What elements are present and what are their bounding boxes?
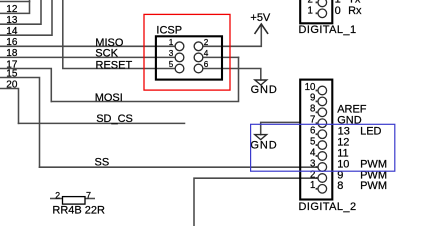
svg-text:7: 7 xyxy=(86,190,91,200)
wire net 20 down to SD_CS row xyxy=(0,89,19,124)
svg-text:12: 12 xyxy=(6,4,18,15)
svg-text:4: 4 xyxy=(310,147,316,158)
wire net 15 down to SS row xyxy=(0,78,40,168)
svg-text:13: 13 xyxy=(6,15,18,26)
red net frame around ICSP xyxy=(144,14,230,90)
DIGITAL_2 pin terminal dots xyxy=(316,90,318,190)
connector DIGITAL_2 box xyxy=(300,80,332,200)
wire DIGITAL_2 pin7 to GND2 xyxy=(261,122,300,134)
svg-text:6: 6 xyxy=(204,60,209,69)
svg-text:20: 20 xyxy=(6,79,18,90)
wire DIGITAL_2 pin2 from bottom edge xyxy=(194,178,317,226)
svg-text:1: 1 xyxy=(310,180,315,191)
wire ICSP pin2 stub to +5V xyxy=(203,24,262,46)
svg-text:8: 8 xyxy=(337,180,343,192)
svg-text:GND: GND xyxy=(251,84,278,96)
left pin number labels xyxy=(6,4,18,90)
svg-text:1: 1 xyxy=(169,38,174,47)
svg-text:18: 18 xyxy=(6,48,18,59)
svg-text:1: 1 xyxy=(308,5,313,16)
svg-text:Rx: Rx xyxy=(348,5,362,17)
wire net 16 MISO to ICSP pin1 xyxy=(0,45,175,47)
ICSP pin circles xyxy=(175,42,203,73)
net name labels xyxy=(95,37,133,168)
wire net 12 with vertical riser xyxy=(0,0,30,13)
ground GND1 triangle xyxy=(255,80,267,85)
svg-text:6: 6 xyxy=(310,126,315,137)
svg-text:9: 9 xyxy=(310,93,315,104)
svg-text:+5V: +5V xyxy=(250,12,271,24)
svg-text:SCK: SCK xyxy=(95,47,118,59)
svg-text:RESET: RESET xyxy=(96,60,133,72)
svg-text:2: 2 xyxy=(204,38,209,47)
svg-text:SD_CS: SD_CS xyxy=(96,113,133,125)
DIGITAL_1 pin numbers xyxy=(308,0,313,16)
svg-text:ICSP: ICSP xyxy=(156,25,182,37)
blue net frame xyxy=(251,124,395,171)
ICSP pin numbers right column xyxy=(204,38,209,69)
wire MOSI row up to ICSP pin4 xyxy=(51,57,238,101)
svg-text:5: 5 xyxy=(310,136,315,147)
DIGITAL_2 pin circles xyxy=(318,86,327,193)
connector DIGITAL_1 box (cut at top) xyxy=(300,0,332,23)
resistor RR4B body xyxy=(63,197,86,205)
resistor RR4B lead left xyxy=(50,198,63,200)
wire ICSP pin6 stub to GND xyxy=(203,69,261,81)
power +5V arrowhead xyxy=(255,24,268,33)
DIGITAL_1 external labels xyxy=(335,0,362,17)
svg-text:DIGITAL_1: DIGITAL_1 xyxy=(299,24,357,36)
ground GND2 triangle xyxy=(255,135,267,140)
wire SS row to DIGITAL_2 pin3 xyxy=(40,166,318,168)
svg-text:LED: LED xyxy=(360,126,381,138)
svg-text:MOSI: MOSI xyxy=(95,92,123,104)
svg-text:8: 8 xyxy=(310,104,315,115)
svg-text:14: 14 xyxy=(6,26,18,37)
wire RESET from riser to ICSP pin5 xyxy=(63,0,176,69)
wire SD_CS row xyxy=(19,122,185,124)
svg-text:SS: SS xyxy=(95,156,110,168)
resistor RR4B lead right xyxy=(85,198,95,200)
wire net 17 down to MOSI row xyxy=(0,69,51,102)
svg-text:0: 0 xyxy=(335,5,341,17)
DIGITAL_1 pin terminal dots xyxy=(316,2,318,15)
wire ICSP pin4 stub xyxy=(203,56,239,58)
wire net 11 top xyxy=(0,1,30,3)
svg-text:16: 16 xyxy=(6,37,18,48)
svg-text:GND: GND xyxy=(250,140,277,152)
wire net 13 with vertical riser xyxy=(0,0,41,24)
svg-text:DIGITAL_2: DIGITAL_2 xyxy=(299,201,357,213)
svg-text:10: 10 xyxy=(305,82,316,93)
svg-text:PWM: PWM xyxy=(360,180,387,192)
svg-text:3: 3 xyxy=(310,158,315,169)
svg-text:3: 3 xyxy=(169,49,174,58)
svg-text:2: 2 xyxy=(55,190,60,200)
DIGITAL_2 external labels xyxy=(337,104,387,193)
DIGITAL_2 pin numbers xyxy=(305,82,316,191)
wire net 14 with vertical riser xyxy=(0,0,52,35)
svg-text:5: 5 xyxy=(169,60,174,69)
connector U1 ICSP box xyxy=(156,36,222,79)
svg-text:RR4B 22R: RR4B 22R xyxy=(52,205,105,217)
wire net 18 SCK to ICSP pin3 xyxy=(0,56,175,58)
DIGITAL_1 pin circles xyxy=(318,0,327,18)
ICSP pin numbers left column xyxy=(169,38,174,69)
svg-text:15: 15 xyxy=(6,68,18,79)
svg-text:4: 4 xyxy=(204,49,209,58)
